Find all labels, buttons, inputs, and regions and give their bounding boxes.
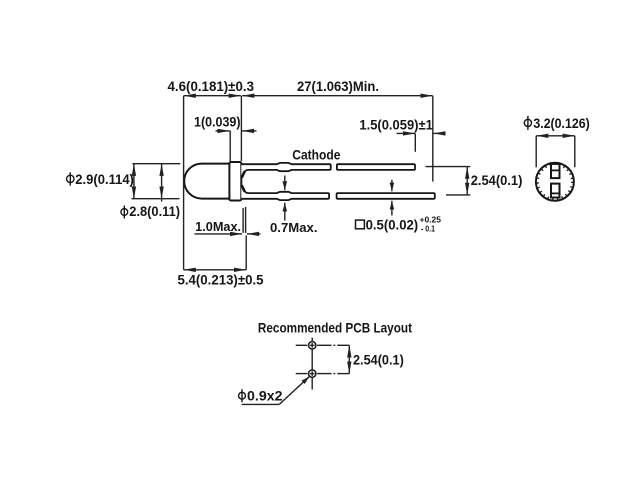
extension line cathode lead end horizontal [425, 166, 470, 168]
svg-text:2.8(0.11): 2.8(0.11) [129, 203, 180, 219]
svg-text:1(0.039): 1(0.039) [194, 113, 241, 129]
PCB hole 1 crosshair [296, 344, 308, 346]
cathode lead segment 1 with stand-off tab [241, 163, 330, 178]
PCB hole 2 crosshair [296, 373, 308, 375]
svg-text:1.5(0.059)±1: 1.5(0.059)±1 [359, 117, 433, 133]
svg-text:+0.25: +0.25 [420, 216, 442, 225]
svg-text:1.0Max.: 1.0Max. [195, 220, 241, 234]
square symbol [356, 220, 365, 229]
extension line at flange left edge [229, 131, 231, 161]
dimension 27(1.063)Min. [242, 95, 432, 97]
svg-text:2.54(0.1): 2.54(0.1) [353, 351, 404, 367]
svg-text:2.9(0.114): 2.9(0.114) [75, 171, 134, 187]
phi symbol 3.2 [524, 119, 531, 126]
dimension phi2.9(0.114) dome diameter [133, 164, 135, 199]
dimension 1.0Max. stand-off [195, 233, 243, 235]
anode lead segment 2 [337, 193, 435, 199]
svg-text:3.2(0.126): 3.2(0.126) [533, 115, 589, 131]
cathode lead fillet [242, 172, 245, 178]
extension line at anode lead end [432, 96, 434, 182]
dimension 0.7Max. tab thickness arrows [284, 176, 286, 191]
end view body circle [536, 163, 574, 201]
extension line dome bottom [132, 198, 180, 200]
PCB vertical centerline [311, 338, 313, 342]
end view: dimension phi3.2(0.126) [536, 135, 575, 137]
extension line anode lead end horizontal [446, 194, 470, 196]
anode lead segment 1 with stand-off tab [241, 185, 329, 200]
end view knurl ring [538, 165, 572, 199]
dimension 1(0.039) flange thickness [216, 130, 230, 132]
svg-text:0.5(0.02): 0.5(0.02) [366, 217, 419, 233]
extension line at cathode lead end [414, 133, 416, 151]
dimension square 0.5(0.02) lead cross-section arrows [391, 180, 393, 192]
dimension phi2.8(0.11) [161, 164, 163, 199]
svg-text:0.9x2: 0.9x2 [247, 388, 283, 404]
LED dome (epoxy body, side view) [184, 164, 230, 199]
svg-text:Cathode: Cathode [292, 147, 340, 163]
svg-text:5.4(0.213)±0.5: 5.4(0.213)±0.5 [178, 271, 264, 287]
svg-text:- 0.1: - 0.1 [421, 224, 435, 233]
svg-text:4.6(0.181)±0.3: 4.6(0.181)±0.3 [168, 78, 255, 94]
dimension 1.5(0.059)±1 lead tip offset [397, 132, 416, 134]
svg-text:0.7Max.: 0.7Max. [270, 221, 318, 235]
end view cathode lead cross-section [551, 164, 560, 178]
end view anode lead cross-section [551, 184, 560, 198]
phi symbol 2.9 [67, 175, 74, 182]
PCB hole 2 [309, 370, 316, 377]
cathode lead segment 2 [337, 164, 415, 170]
PCB dimension 2.54(0.1) [334, 344, 336, 346]
svg-text:27(1.063)Min.: 27(1.063)Min. [297, 78, 379, 94]
anode lead fillet [242, 185, 245, 191]
PCB hole size label phi0.9x2 [239, 392, 246, 399]
LED flange [229, 162, 241, 201]
svg-text:Recommended PCB Layout: Recommended PCB Layout [258, 320, 412, 336]
PCB hole 1 [309, 342, 316, 349]
extension line at flange right edge [240, 96, 242, 161]
extension line dome top [132, 163, 180, 165]
phi symbol 2.8 [121, 209, 128, 216]
dimension 4.6(0.181)±0.3 [184, 95, 241, 97]
svg-text:2.54(0.1): 2.54(0.1) [471, 172, 523, 188]
extension line lead bend [245, 236, 247, 270]
extension line at dome tip [183, 96, 185, 270]
leader line to hole 2 [242, 403, 280, 405]
dimension 5.4(0.213)±0.5 [184, 269, 247, 271]
dimension 2.54(0.1) lead spacing [466, 167, 468, 195]
